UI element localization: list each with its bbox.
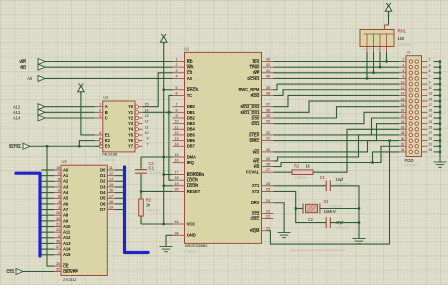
wire WP bbox=[274, 72, 400, 74]
wire A14 to U2.C bbox=[45, 117, 95, 119]
svg-text:<TEXT>: <TEXT> bbox=[102, 158, 116, 162]
svg-text:3: 3 bbox=[99, 114, 101, 118]
svg-text:44: 44 bbox=[175, 220, 179, 224]
svg-text:23: 23 bbox=[56, 228, 60, 232]
ground below U1 bbox=[160, 247, 173, 252]
terminal A13 bbox=[13, 109, 45, 115]
svg-text:RDD: RDD bbox=[251, 93, 260, 98]
svg-text:DIRC: DIRC bbox=[249, 138, 259, 143]
svg-text:A10: A10 bbox=[63, 224, 71, 229]
svg-text:28: 28 bbox=[401, 131, 405, 135]
svg-text:4: 4 bbox=[58, 200, 60, 204]
svg-text:32: 32 bbox=[401, 142, 405, 146]
wire A12 to U2.A bbox=[45, 106, 95, 108]
svg-text:B: B bbox=[105, 110, 108, 115]
capacitor C3 bbox=[135, 157, 163, 191]
svg-text:16: 16 bbox=[175, 159, 179, 163]
svg-text:IRQ: IRQ bbox=[187, 160, 195, 165]
svg-text:HS: HS bbox=[254, 164, 260, 169]
svg-text:7: 7 bbox=[176, 103, 178, 107]
svg-text:23: 23 bbox=[266, 210, 270, 214]
ground rail right of J1 bbox=[439, 62, 441, 163]
svg-text:U2: U2 bbox=[103, 95, 109, 100]
svg-text:U1: U1 bbox=[184, 46, 190, 51]
svg-text:FCVAL: FCVAL bbox=[246, 170, 260, 175]
svg-text:CE: CE bbox=[63, 263, 69, 268]
wire FCVAL bbox=[313, 129, 399, 172]
svg-text:R1: R1 bbox=[294, 164, 300, 169]
wire Y1 to U1.TC and DB1 bbox=[143, 111, 173, 113]
svg-text:24: 24 bbox=[56, 217, 60, 221]
wire Y0 to U1.CS bbox=[143, 73, 173, 107]
svg-text:15: 15 bbox=[175, 153, 179, 157]
wire A0 to U1 pin4 bbox=[45, 77, 173, 79]
svg-text:5: 5 bbox=[176, 86, 178, 90]
svg-text:DB6: DB6 bbox=[187, 138, 196, 143]
power terminal VCC for U2.E1 bbox=[78, 83, 85, 93]
svg-text:C1: C1 bbox=[320, 175, 326, 180]
svg-text:2: 2 bbox=[99, 108, 101, 112]
svg-text:IDX: IDX bbox=[253, 59, 260, 64]
wire A13 to U2.B bbox=[45, 111, 95, 113]
wire U1.XT2 down to C2 bbox=[274, 191, 327, 222]
wire STEP bbox=[274, 118, 400, 135]
svg-text:1: 1 bbox=[99, 103, 101, 107]
svg-text:WE: WE bbox=[253, 158, 260, 163]
svg-text:33: 33 bbox=[266, 120, 270, 124]
U1 right pins bbox=[238, 58, 273, 234]
svg-text:U3: U3 bbox=[62, 159, 68, 164]
svg-text:29: 29 bbox=[429, 137, 433, 141]
wire R2 to U1.VCC bbox=[141, 223, 173, 225]
svg-text:13: 13 bbox=[429, 92, 433, 96]
wire DMA row to RC node bbox=[141, 156, 173, 158]
svg-text:30: 30 bbox=[266, 148, 270, 152]
junctions ground rail bbox=[439, 60, 441, 153]
wire U1.DRV to ground bbox=[274, 203, 285, 232]
junction RN1/WP bbox=[372, 72, 374, 74]
wire TR00 bbox=[274, 66, 400, 68]
faint annotation line bbox=[290, 249, 345, 251]
svg-text:24: 24 bbox=[266, 199, 270, 203]
svg-text:11: 11 bbox=[145, 125, 149, 129]
svg-text:4: 4 bbox=[176, 74, 178, 78]
svg-text:9: 9 bbox=[176, 114, 178, 118]
wire CS1 to U3.OE/VPP bbox=[23, 271, 54, 273]
svg-text:LDOR: LDOR bbox=[187, 183, 199, 188]
svg-text:12: 12 bbox=[109, 172, 113, 176]
wire SLTSL branch to U3.CE bbox=[47, 146, 54, 266]
wires U3 data bus entries bbox=[115, 170, 123, 210]
svg-text:26: 26 bbox=[266, 182, 270, 186]
svg-text:27: 27 bbox=[266, 168, 270, 172]
wire to U1 pin17 bbox=[164, 174, 173, 176]
svg-text:6: 6 bbox=[58, 189, 60, 193]
capacitor C1 bbox=[320, 175, 349, 191]
bus address (left of U3) bbox=[16, 173, 40, 256]
svg-text:A12: A12 bbox=[63, 235, 71, 240]
svg-text:10: 10 bbox=[145, 131, 149, 135]
svg-text:25: 25 bbox=[266, 187, 270, 191]
terminal A0 bbox=[27, 75, 45, 81]
svg-text:Y6: Y6 bbox=[128, 138, 134, 143]
wire VCC rail down (node DACK) bbox=[163, 44, 165, 224]
svg-text:WP: WP bbox=[253, 70, 260, 75]
svg-text:E3: E3 bbox=[105, 144, 111, 149]
svg-text:17: 17 bbox=[109, 194, 113, 198]
svg-text:RN1: RN1 bbox=[398, 29, 407, 34]
junction XT2 node / crystal bbox=[295, 207, 297, 209]
svg-text:E1: E1 bbox=[105, 132, 111, 137]
junction SLTSL/CE bbox=[46, 145, 48, 147]
svg-text:DS0: DS0 bbox=[251, 115, 260, 120]
junction Y1/TC bbox=[168, 111, 170, 113]
svg-text:10: 10 bbox=[56, 166, 60, 170]
svg-text:D5: D5 bbox=[100, 196, 106, 201]
wire DS0 bbox=[274, 107, 400, 118]
svg-text:Y2: Y2 bbox=[128, 115, 134, 120]
wire MO1_DS1 bbox=[274, 101, 400, 112]
svg-text:DB5: DB5 bbox=[187, 132, 196, 137]
svg-text:D6: D6 bbox=[100, 201, 106, 206]
junction DMA node bbox=[163, 156, 165, 158]
capacitor C2 bbox=[308, 217, 351, 230]
svg-text:MO1_DS1: MO1_DS1 bbox=[240, 110, 260, 115]
terminal A14 bbox=[13, 115, 45, 121]
svg-text:XT1: XT1 bbox=[252, 183, 260, 188]
U3 OE/VPP pin bbox=[54, 268, 78, 274]
svg-text:WD37C65BJ: WD37C65BJ bbox=[185, 243, 207, 248]
junction node B at C2 bbox=[358, 221, 360, 223]
svg-text:22: 22 bbox=[266, 215, 270, 219]
svg-text:DACK: DACK bbox=[187, 87, 199, 92]
svg-text:31: 31 bbox=[429, 142, 433, 146]
wire to U1.DACK bbox=[164, 89, 173, 91]
svg-text:13: 13 bbox=[109, 177, 113, 181]
wire TC branch down to U1.LDCR pin18 bbox=[169, 112, 173, 180]
U2 left pins bbox=[95, 103, 111, 149]
svg-text:6: 6 bbox=[176, 91, 178, 95]
svg-text:A5: A5 bbox=[63, 196, 69, 201]
svg-text:D3: D3 bbox=[100, 184, 106, 189]
svg-text:A14: A14 bbox=[63, 247, 71, 252]
svg-text:<TEXT>: <TEXT> bbox=[329, 203, 344, 208]
svg-text:150: 150 bbox=[398, 36, 405, 41]
svg-text:16MHz: 16MHz bbox=[324, 209, 337, 214]
svg-text:14: 14 bbox=[401, 92, 405, 96]
svg-text:23: 23 bbox=[429, 120, 433, 124]
svg-text:27: 27 bbox=[429, 131, 433, 135]
RN1 common pin stub bbox=[385, 25, 389, 30]
svg-text:DB2: DB2 bbox=[187, 115, 196, 120]
svg-text:13: 13 bbox=[145, 114, 149, 118]
wire HS branch to J1 pin34 bbox=[373, 152, 400, 163]
svg-text:21: 21 bbox=[266, 227, 270, 231]
power terminal VCC above U1 bbox=[160, 34, 167, 44]
svg-text:OSC: OSC bbox=[251, 216, 260, 221]
svg-text:C2: C2 bbox=[308, 217, 314, 222]
svg-text:RQM: RQM bbox=[250, 228, 260, 233]
J1 pin rows bbox=[399, 58, 432, 154]
wire RD to U1 pin2 bbox=[45, 66, 173, 68]
U3 address pins A0-A15 bbox=[54, 166, 71, 257]
junction crystal right / node B bbox=[358, 207, 360, 209]
svg-text:<TEXT>: <TEXT> bbox=[149, 170, 164, 175]
svg-text:A13: A13 bbox=[13, 110, 21, 115]
wire IDX bbox=[274, 61, 400, 63]
wire DS1 bbox=[274, 112, 400, 123]
svg-text:14: 14 bbox=[145, 108, 149, 112]
svg-text:<TEXT>: <TEXT> bbox=[185, 250, 199, 254]
svg-text:A9: A9 bbox=[63, 218, 69, 223]
svg-text:74LS138: 74LS138 bbox=[102, 151, 118, 156]
svg-text:A0: A0 bbox=[63, 167, 69, 172]
wire RN1 pin to DCHG net bbox=[366, 52, 368, 78]
wire WE bbox=[274, 135, 400, 161]
svg-text:12: 12 bbox=[145, 120, 149, 124]
svg-text:33: 33 bbox=[429, 148, 433, 152]
svg-text:18: 18 bbox=[401, 103, 405, 107]
svg-text:A3: A3 bbox=[63, 184, 69, 189]
svg-text:27C512: 27C512 bbox=[63, 277, 77, 282]
svg-text:DB4: DB4 bbox=[187, 127, 196, 132]
svg-text:20: 20 bbox=[175, 187, 179, 191]
svg-text:36: 36 bbox=[266, 108, 270, 112]
resistor network RN1 bbox=[360, 29, 412, 53]
wire HS bbox=[274, 146, 400, 166]
junction RESET node bbox=[140, 190, 142, 192]
svg-text:12: 12 bbox=[175, 131, 179, 135]
svg-text:22: 22 bbox=[401, 114, 405, 118]
svg-text:3: 3 bbox=[176, 69, 178, 73]
svg-text:19: 19 bbox=[175, 182, 179, 186]
ground at U1.DRV bbox=[278, 233, 291, 238]
svg-text:15: 15 bbox=[145, 103, 149, 107]
svg-text:<TEXT>: <TEXT> bbox=[146, 208, 161, 213]
svg-text:RESET: RESET bbox=[187, 189, 201, 194]
U1 left pins bbox=[173, 58, 205, 238]
junction HS branch bbox=[371, 161, 373, 163]
wire TC vertical bbox=[169, 95, 173, 112]
terminal A12 bbox=[13, 104, 45, 110]
svg-text:43: 43 bbox=[266, 58, 270, 62]
svg-text:5: 5 bbox=[99, 142, 101, 146]
wire to U1 pin19 bbox=[164, 185, 173, 187]
svg-text:WR: WR bbox=[187, 65, 194, 70]
svg-text:14: 14 bbox=[175, 142, 179, 146]
wire VCC to RN1 common bbox=[388, 17, 390, 25]
svg-text:37: 37 bbox=[266, 103, 270, 107]
wire C1 to node B bbox=[330, 186, 359, 239]
svg-text:41: 41 bbox=[266, 69, 270, 73]
junction RN1/IDX bbox=[385, 60, 387, 62]
svg-text:LDCR: LDCR bbox=[187, 178, 198, 183]
junction RN1/DCHG bbox=[366, 77, 368, 79]
svg-text:A11: A11 bbox=[63, 230, 71, 235]
svg-text:D4: D4 bbox=[100, 190, 106, 195]
wire VCC to U2.E1 bbox=[81, 93, 95, 135]
junction VCC wire end bbox=[163, 223, 165, 225]
svg-text:D7: D7 bbox=[100, 207, 106, 212]
wire RDD bbox=[274, 90, 400, 96]
svg-text:16: 16 bbox=[401, 97, 405, 101]
svg-text:42: 42 bbox=[266, 63, 270, 67]
wire U1.XT1 to C1 bbox=[274, 185, 327, 187]
wire SLTSL branch to U2.E2 bbox=[79, 141, 95, 147]
svg-text:13: 13 bbox=[175, 137, 179, 141]
svg-text:DB7: DB7 bbox=[187, 144, 196, 149]
svg-text:A15: A15 bbox=[63, 252, 71, 257]
svg-text:7: 7 bbox=[147, 142, 149, 146]
svg-text:DB1: DB1 bbox=[187, 110, 196, 115]
svg-text:24: 24 bbox=[401, 120, 405, 124]
crystal X1 bbox=[296, 199, 359, 214]
svg-text:DB0: DB0 bbox=[187, 104, 196, 109]
svg-text:6: 6 bbox=[99, 131, 101, 135]
svg-text:2: 2 bbox=[58, 234, 60, 238]
svg-text:C: C bbox=[105, 115, 108, 120]
svg-text:27: 27 bbox=[56, 245, 60, 249]
ground node B bbox=[353, 239, 366, 244]
svg-text:<TEXT>: <TEXT> bbox=[336, 225, 351, 230]
svg-text:15: 15 bbox=[429, 97, 433, 101]
svg-text:CS: CS bbox=[187, 70, 193, 75]
svg-text:<TEXT>: <TEXT> bbox=[398, 42, 413, 47]
wire RC node to U1.RESET bbox=[141, 190, 173, 192]
svg-text:30: 30 bbox=[401, 137, 405, 141]
svg-text:Y7: Y7 bbox=[128, 144, 134, 149]
svg-text:TC: TC bbox=[187, 93, 192, 98]
svg-text:A1: A1 bbox=[63, 173, 69, 178]
wire DCHG bbox=[274, 77, 400, 79]
svg-text:29: 29 bbox=[266, 157, 270, 161]
svg-text:A6: A6 bbox=[63, 201, 69, 206]
svg-text:DRV: DRV bbox=[251, 200, 260, 205]
svg-text:D0: D0 bbox=[100, 167, 106, 172]
svg-text:8: 8 bbox=[58, 177, 60, 181]
svg-text:35: 35 bbox=[266, 114, 270, 118]
svg-text:18: 18 bbox=[109, 200, 113, 204]
wire WR to U1 pin1 bbox=[45, 61, 173, 63]
svg-text:19: 19 bbox=[109, 206, 113, 210]
terminal SLTSL bbox=[9, 143, 30, 149]
wire RN1 pin to WP net bbox=[373, 52, 375, 73]
svg-text:STEP: STEP bbox=[249, 132, 260, 137]
svg-text:<TEXT>: <TEXT> bbox=[405, 164, 419, 168]
svg-text:38: 38 bbox=[266, 91, 270, 95]
svg-text:10: 10 bbox=[175, 120, 179, 124]
svg-text:9: 9 bbox=[58, 172, 60, 176]
wire MO2_DS3 bbox=[274, 95, 400, 106]
decoder U2 body bbox=[102, 95, 135, 162]
svg-text:21: 21 bbox=[56, 223, 60, 227]
svg-text:7: 7 bbox=[58, 183, 60, 187]
svg-text:Y4: Y4 bbox=[128, 127, 134, 132]
svg-text:18: 18 bbox=[175, 176, 179, 180]
svg-text:A0: A0 bbox=[187, 76, 193, 81]
svg-text:DCHG: DCHG bbox=[247, 76, 259, 81]
svg-text:25: 25 bbox=[429, 126, 433, 130]
svg-text:D1: D1 bbox=[100, 173, 106, 178]
wire WD bbox=[274, 141, 400, 152]
svg-text:VCC: VCC bbox=[187, 221, 196, 226]
svg-text:Y5: Y5 bbox=[128, 132, 134, 137]
svg-text:2: 2 bbox=[176, 63, 178, 67]
wires J1 odd pins to ground rail bbox=[434, 62, 441, 152]
svg-text:RWC_RPM: RWC_RPM bbox=[238, 87, 259, 92]
svg-text:40: 40 bbox=[266, 74, 270, 78]
svg-text:TR00: TR00 bbox=[249, 65, 260, 70]
svg-text:A13: A13 bbox=[63, 241, 71, 246]
bus data (right of U3) bbox=[125, 167, 149, 253]
wire SLTSL to U2.E3 bbox=[30, 145, 99, 147]
wire U1.GND down bbox=[166, 235, 173, 246]
svg-text:GND: GND bbox=[187, 233, 196, 238]
svg-text:A14: A14 bbox=[13, 116, 21, 121]
svg-text:MO2_DS3: MO2_DS3 bbox=[240, 104, 260, 109]
svg-text:<TEXT>: <TEXT> bbox=[294, 175, 309, 180]
terminal RD bbox=[20, 64, 45, 70]
junction DACK bbox=[163, 89, 165, 91]
svg-text:8: 8 bbox=[176, 108, 178, 112]
svg-text:1: 1 bbox=[58, 251, 60, 255]
svg-text:FDD: FDD bbox=[405, 158, 415, 163]
svg-text:21: 21 bbox=[429, 114, 433, 118]
svg-text:20: 20 bbox=[56, 262, 60, 266]
wire RWC_RPM bbox=[274, 84, 400, 90]
wire RN1 pin to TR00 net bbox=[379, 52, 381, 67]
svg-text:11: 11 bbox=[429, 86, 432, 90]
svg-text:DS1: DS1 bbox=[251, 121, 260, 126]
junction RN1/TR00 bbox=[379, 66, 381, 68]
svg-text:Y3: Y3 bbox=[128, 121, 134, 126]
svg-text:11: 11 bbox=[109, 166, 113, 170]
svg-text:17: 17 bbox=[429, 103, 433, 107]
svg-text:12: 12 bbox=[401, 86, 405, 90]
svg-text:39: 39 bbox=[266, 86, 270, 90]
svg-text:26: 26 bbox=[401, 126, 405, 130]
EPROM U3 body bbox=[61, 159, 107, 282]
svg-text:BORDEN: BORDEN bbox=[187, 172, 205, 177]
ground symbol right rail bbox=[434, 162, 447, 167]
wire U1.FCVAL to R1 bbox=[274, 171, 293, 173]
op-amp U1 body bbox=[184, 46, 262, 254]
U3 data pins D0-D7 bbox=[100, 166, 115, 212]
svg-text:16: 16 bbox=[109, 189, 113, 193]
svg-text:5: 5 bbox=[58, 194, 60, 198]
svg-text:Y0: Y0 bbox=[128, 104, 134, 109]
svg-text:34: 34 bbox=[401, 148, 405, 152]
svg-text:A7: A7 bbox=[63, 207, 69, 212]
junction RQM/WD net bbox=[388, 139, 390, 141]
svg-text:WD: WD bbox=[253, 149, 260, 154]
svg-text:9: 9 bbox=[147, 137, 149, 141]
svg-text:10: 10 bbox=[401, 80, 405, 84]
svg-text:A8: A8 bbox=[63, 213, 69, 218]
wire RN1 pin to IDX net bbox=[386, 52, 388, 62]
svg-text:34: 34 bbox=[175, 231, 179, 235]
svg-text:32: 32 bbox=[266, 131, 270, 135]
svg-text:31: 31 bbox=[266, 137, 270, 141]
svg-text:1: 1 bbox=[176, 58, 178, 62]
terminal WR bbox=[19, 59, 45, 65]
svg-text:DMA: DMA bbox=[187, 154, 196, 159]
wire DIRC bbox=[274, 124, 400, 141]
connector J1 body bbox=[405, 50, 422, 168]
svg-text:E2: E2 bbox=[105, 138, 111, 143]
resistor R1 bbox=[292, 164, 313, 181]
svg-text:22: 22 bbox=[56, 268, 60, 272]
